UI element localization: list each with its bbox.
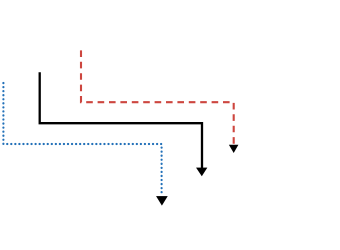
red dashed elbow wire bbox=[81, 50, 234, 144]
black solid elbow wire bbox=[40, 72, 202, 168]
blue-line black arrowhead bbox=[157, 196, 168, 205]
black arrowhead bbox=[197, 168, 207, 176]
red-line black arrowhead bbox=[229, 145, 238, 152]
blue dotted elbow wire bbox=[3, 83, 161, 196]
